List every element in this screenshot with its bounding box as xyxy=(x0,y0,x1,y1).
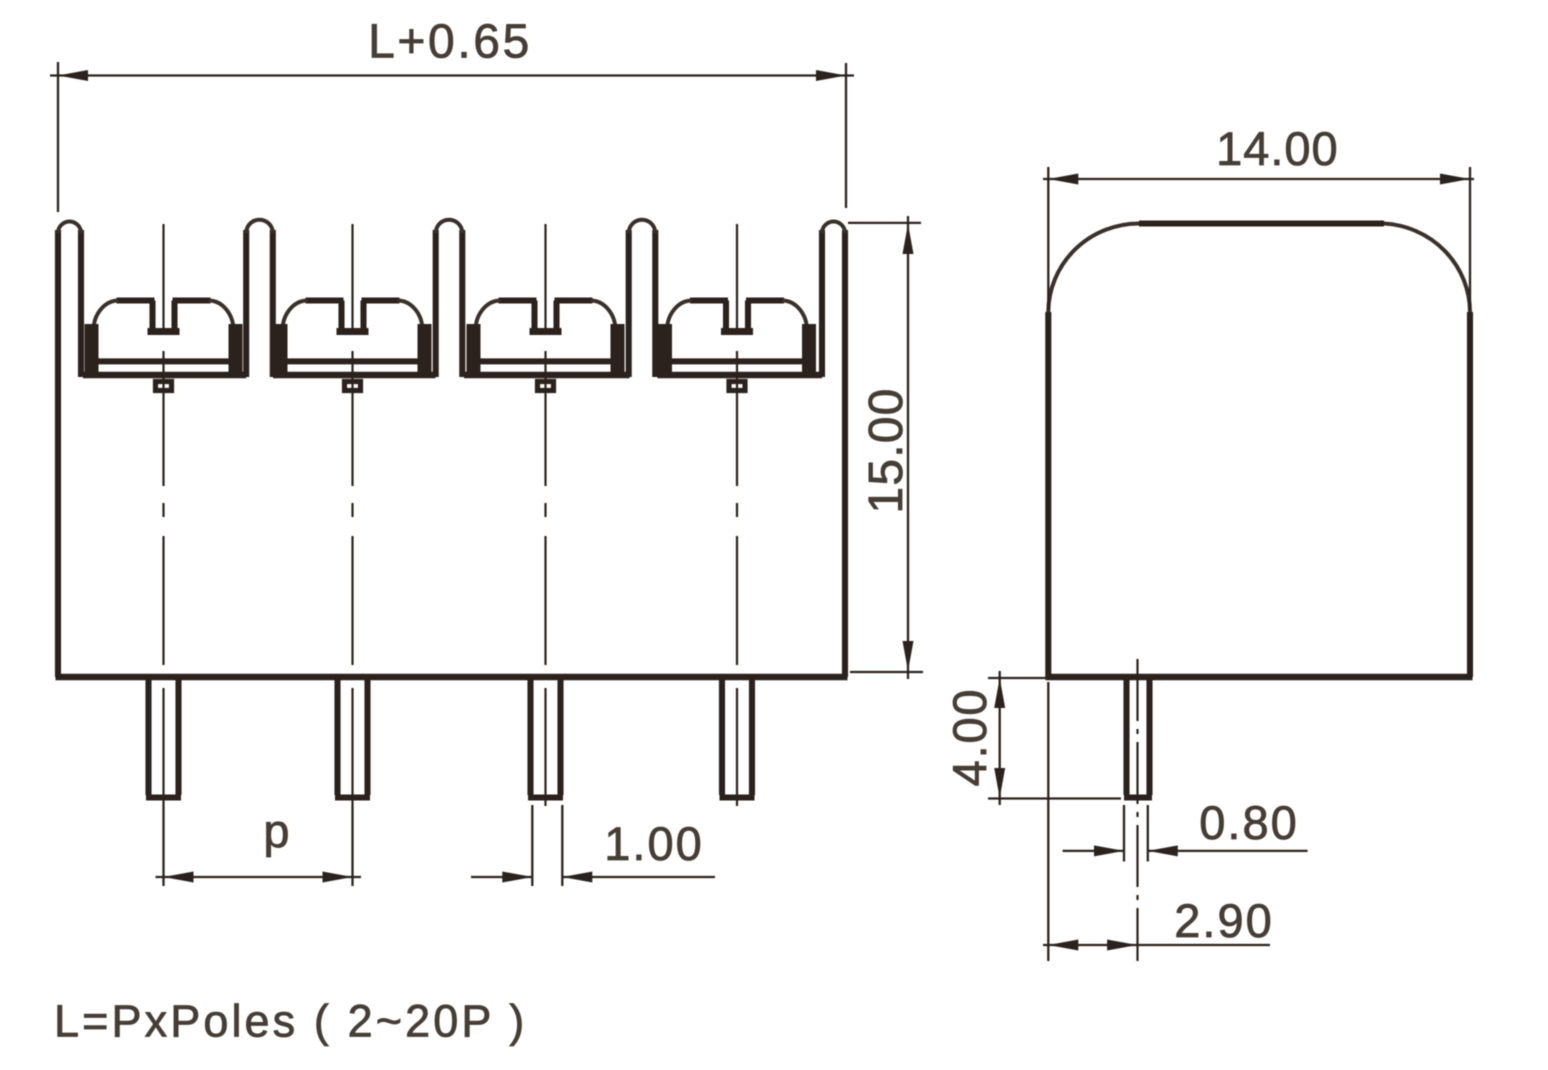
dimension line xyxy=(1043,178,1474,180)
dimension 4.00 xyxy=(988,671,1121,805)
dimension line right tail xyxy=(562,876,715,878)
screw head flat top right xyxy=(555,297,593,303)
svg-text:L+0.65: L+0.65 xyxy=(368,16,532,69)
clamp right flange xyxy=(802,324,816,375)
dimension line xyxy=(1043,944,1270,946)
solder pin root square xyxy=(538,382,554,391)
screw slot left wall xyxy=(531,301,537,331)
extension line right xyxy=(1469,167,1471,310)
extension line body left edge xyxy=(1047,682,1049,961)
clamp upper plate xyxy=(480,358,612,364)
solder pin root square xyxy=(729,382,745,391)
screw slot bottom xyxy=(530,328,562,335)
extension line pin3 left edge xyxy=(531,805,533,886)
barrier wall 2 xyxy=(246,220,273,377)
screw slot right wall xyxy=(745,301,751,331)
extension line pin1 center xyxy=(162,806,164,886)
arrowhead down xyxy=(994,768,1005,798)
screw head flat top right xyxy=(746,297,784,303)
screw head left arc xyxy=(476,301,501,331)
screw head right arc xyxy=(591,301,616,331)
top edge xyxy=(1139,221,1384,227)
extension line top xyxy=(988,677,1047,679)
screw slot left wall xyxy=(338,301,344,331)
screw head flat top left xyxy=(306,297,344,303)
clamp lower plate xyxy=(464,372,630,379)
screw head flat top left xyxy=(117,297,155,303)
dimension line right tail xyxy=(1148,850,1308,852)
svg-text:L=PxPoles ( 2~20P ): L=PxPoles ( 2~20P ) xyxy=(54,996,527,1047)
clamp upper plate xyxy=(98,358,230,364)
extension line pin left edge xyxy=(1123,805,1125,862)
svg-text:15.00: 15.00 xyxy=(860,387,913,513)
screw head right arc xyxy=(209,301,234,331)
extension line bottom xyxy=(850,671,923,673)
dimension 2.90 xyxy=(1043,682,1270,961)
screw terminal pole 1 xyxy=(83,301,246,391)
clamp left flange xyxy=(467,324,481,375)
extension line pin2 center xyxy=(351,806,353,886)
dimension L+0.65 xyxy=(50,62,854,212)
arrowhead pointing left xyxy=(1148,845,1178,856)
pin 3 (front view) xyxy=(528,677,563,798)
barrier wall 1 (left end) xyxy=(58,222,81,378)
pin centerline (side view) xyxy=(1136,659,1138,961)
barrier wall 3 xyxy=(436,220,463,377)
extension line left xyxy=(57,62,59,212)
extension line pin right edge xyxy=(1147,805,1149,862)
extension line right xyxy=(845,63,847,208)
front view body right edge xyxy=(842,230,848,677)
arrowhead pointing right xyxy=(502,872,532,883)
screw head flat top left xyxy=(690,297,728,303)
extension line top xyxy=(848,222,921,224)
pin (side view) xyxy=(1124,677,1152,798)
arrowhead left xyxy=(164,872,194,883)
centerline pole 1 xyxy=(162,224,164,334)
centerline pole 4 xyxy=(736,224,738,334)
arrowhead up xyxy=(994,678,1005,708)
screw slot bottom xyxy=(148,328,180,335)
screw head flat top right xyxy=(173,297,211,303)
svg-text:14.00: 14.00 xyxy=(1216,122,1339,175)
right edge xyxy=(1467,312,1473,677)
side view body xyxy=(1046,224,1473,678)
barrier wall 4 xyxy=(629,220,656,377)
clamp lower plate xyxy=(83,372,246,379)
arrowhead right xyxy=(1440,174,1470,185)
clamp lower plate xyxy=(658,372,823,379)
centerline pole 3 xyxy=(544,224,546,334)
screw slot bottom xyxy=(721,328,753,335)
svg-text:4.00: 4.00 xyxy=(943,688,996,787)
screw slot left wall xyxy=(723,301,729,331)
solder pin root square xyxy=(345,382,361,391)
corner arc top-left xyxy=(1048,224,1139,313)
extension line pin3 right edge xyxy=(561,805,563,886)
dimension line xyxy=(50,74,854,76)
front view body left edge xyxy=(55,230,61,677)
corner arc top-right xyxy=(1384,224,1470,313)
dimension 0.80 xyxy=(1063,805,1308,862)
left edge xyxy=(1045,312,1051,677)
clamp right flange xyxy=(611,324,625,375)
svg-text:0.80: 0.80 xyxy=(1199,796,1298,849)
dimension line left tail xyxy=(1063,850,1124,852)
svg-text:1.00: 1.00 xyxy=(604,817,703,870)
dimension line xyxy=(999,671,1001,805)
screw head flat top right xyxy=(362,297,400,303)
arrowhead left xyxy=(58,70,88,81)
screw head flat top left xyxy=(499,297,537,303)
arrowhead pointing left xyxy=(562,872,592,883)
dimension 14.00 xyxy=(1043,167,1474,310)
centerline pole 2 xyxy=(351,224,353,334)
pin 1 (front view) xyxy=(146,677,181,798)
screw head left arc xyxy=(667,301,692,331)
arrowhead pointing left xyxy=(1048,940,1078,951)
front view body bottom xyxy=(56,674,848,680)
clamp left flange xyxy=(658,324,672,375)
barrier wall 5 (right end) xyxy=(822,222,845,378)
clamp left flange xyxy=(274,324,288,375)
arrowhead pointing right xyxy=(1094,845,1124,856)
screw slot bottom xyxy=(337,328,369,335)
screw slot left wall xyxy=(149,301,155,331)
clamp upper plate xyxy=(287,358,419,364)
arrowhead left xyxy=(1048,174,1078,185)
svg-text:p: p xyxy=(263,804,289,857)
screw slot right wall xyxy=(360,301,366,331)
extension line left xyxy=(1047,167,1049,310)
dimension 15.00 xyxy=(848,216,923,679)
extension line bottom xyxy=(988,797,1121,799)
screw slot right wall xyxy=(553,301,559,331)
arrowhead down xyxy=(903,641,914,671)
dimension p xyxy=(156,806,362,886)
svg-text:2.90: 2.90 xyxy=(1174,894,1273,947)
clamp right flange xyxy=(229,324,243,375)
solder pin root square xyxy=(156,382,172,391)
screw head right arc xyxy=(782,301,807,331)
screw terminal pole 4 xyxy=(658,301,823,391)
dimension 1.00 xyxy=(471,805,715,886)
arrowhead up xyxy=(903,224,914,254)
screw head right arc xyxy=(398,301,423,331)
screw head left arc xyxy=(283,301,308,331)
arrowhead right xyxy=(323,872,353,883)
dimension line left tail xyxy=(471,876,532,878)
pin 2 (front view) xyxy=(335,677,370,798)
clamp left flange xyxy=(85,324,99,375)
screw head left arc xyxy=(94,301,119,331)
bottom edge xyxy=(1046,674,1473,680)
arrowhead right xyxy=(816,70,846,81)
clamp upper plate xyxy=(671,358,803,364)
clamp right flange xyxy=(418,324,432,375)
dimension line xyxy=(907,216,909,679)
clamp lower plate xyxy=(273,372,436,379)
screw terminal pole 2 xyxy=(273,301,436,391)
arrowhead pointing right xyxy=(1107,940,1137,951)
screw terminal pole 3 xyxy=(464,301,630,391)
dimension line xyxy=(156,876,362,878)
screw slot right wall xyxy=(171,301,177,331)
pin 4 (front view) xyxy=(720,677,755,798)
